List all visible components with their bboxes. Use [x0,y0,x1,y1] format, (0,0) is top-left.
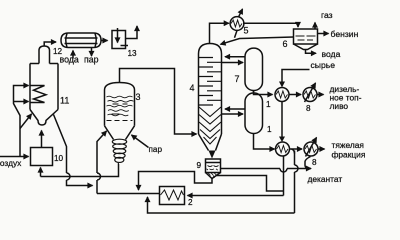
svg-text:9: 9 [197,161,202,170]
svg-text:вода: вода [60,55,79,65]
svg-text:ливо: ливо [330,101,349,111]
svg-text:декантат: декантат [308,174,343,184]
svg-text:8: 8 [306,104,311,113]
svg-text:10: 10 [54,154,64,163]
svg-text:фракция: фракция [332,150,366,160]
svg-text:1: 1 [267,125,272,134]
svg-text:6: 6 [283,39,288,49]
svg-text:пар: пар [84,55,99,65]
svg-text:вода: вода [322,49,341,59]
svg-text:газ: газ [321,10,333,20]
svg-text:11: 11 [60,96,69,106]
svg-text:13: 13 [128,49,138,58]
svg-text:4: 4 [190,83,195,93]
svg-text:воздух: воздух [0,158,22,168]
svg-text:5: 5 [244,26,249,36]
svg-text:2: 2 [188,198,193,207]
svg-text:тяжелая: тяжелая [332,140,364,150]
svg-text:1: 1 [266,100,271,109]
svg-text:7: 7 [235,74,240,84]
svg-text:сырье: сырье [311,60,336,70]
svg-text:3: 3 [136,92,141,102]
svg-text:бензин: бензин [331,29,359,39]
svg-text:пар: пар [149,145,163,154]
svg-text:8: 8 [312,158,317,167]
